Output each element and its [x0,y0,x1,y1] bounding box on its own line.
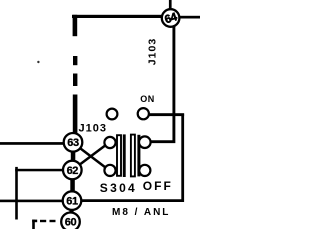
wire left edge to pin 63 [0,142,65,145]
bus wire pin 63 to pin 62 [71,150,76,163]
switch contact mid-right [139,136,151,148]
diagonal wire pin 62 to upper-left contact [80,145,106,164]
switch S304 slider bar 2 [123,134,126,177]
diagonal wire pin 63 to lower-left contact [81,149,106,168]
connector pin 60 [61,213,80,232]
svg-text:62: 62 [67,165,79,177]
wire branch to pin 62 [15,169,64,172]
wire pin 64 down to switch right-mid contact [151,27,174,142]
switch contact upper-left [107,109,118,120]
wire ON contact to right vertical [149,113,185,116]
switch S304 slider bar 4 [137,135,140,177]
svg-text:J103: J103 [79,122,107,134]
svg-text:M8 / ANL: M8 / ANL [112,207,170,218]
connector pin 61 [63,191,82,210]
stray ink dot [37,61,39,63]
mechanical linkage dashed line to switch S304 [73,15,78,134]
wire left edge to pin 61 [0,200,64,203]
wire pin 64 to top edge [169,0,172,10]
svg-text:S304: S304 [100,181,137,195]
bus wire pin 62 to pin 61 [70,178,75,193]
switch S304 slider bar 3 [131,135,135,177]
switch contact lower-left [104,165,115,176]
connector pin 64 [162,9,180,27]
switch contact lower-right (OFF) [139,165,150,176]
svg-text:ON: ON [140,94,155,104]
bus wire pin 61 to pin 60 [69,207,73,215]
switch contact mid-left [104,137,115,148]
vertical branch wire at left [15,167,18,220]
right vertical wire down to pin 61 wire [81,114,183,201]
switch contact ON (upper-right) [138,108,149,119]
svg-text:61: 61 [66,196,78,208]
svg-text:63: 63 [67,137,79,149]
connector pin 63 [64,133,83,152]
connector pin 62 [63,161,82,180]
svg-text:60: 60 [65,217,77,229]
svg-text:J103: J103 [147,38,159,65]
wire top horizontal from linkage corner to pin 64 [72,15,163,18]
svg-text:OFF: OFF [143,179,173,193]
switch S304 slider bar 1 [117,135,121,176]
dashed wire to pin 60 [32,220,55,229]
wire pin 64 to right edge [179,16,200,19]
